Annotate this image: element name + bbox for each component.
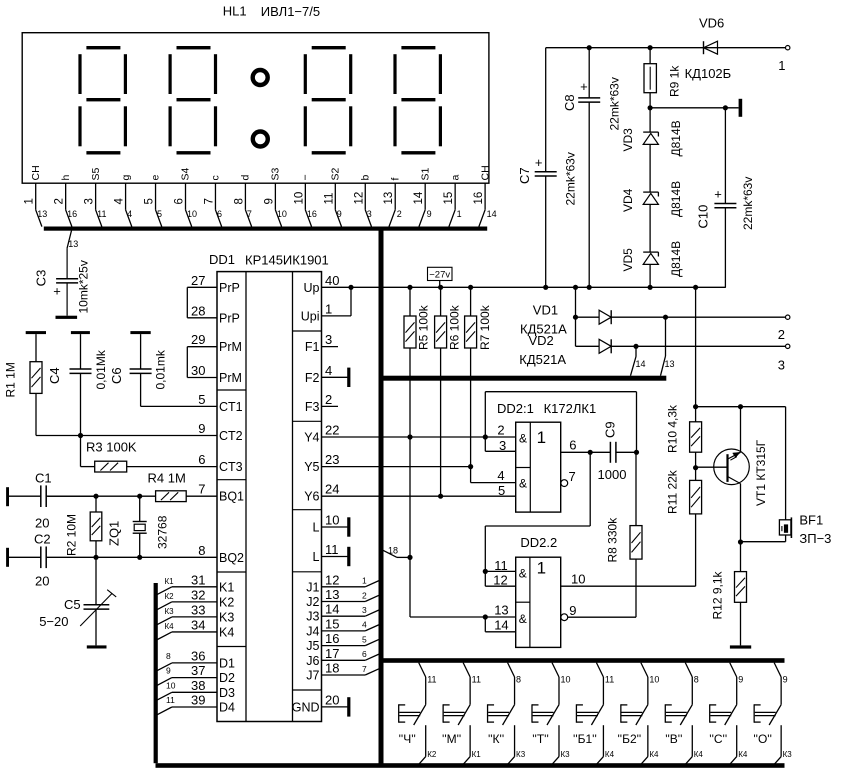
svg-text:18: 18 [325, 661, 339, 676]
svg-text:37: 37 [191, 663, 205, 678]
capacitor C7 22mk*63v [545, 48, 547, 172]
svg-text:К4: К4 [165, 622, 175, 631]
DD1 pin 32 K2 with keyboard tap K2 [172, 601, 217, 603]
display pin 15 lead [454, 183, 456, 210]
svg-text:30: 30 [191, 363, 205, 378]
svg-text:28: 28 [191, 303, 205, 318]
svg-text:R6 100k: R6 100k [448, 304, 462, 350]
svg-text:ЗП−3: ЗП−3 [799, 531, 831, 546]
svg-text:38: 38 [191, 678, 205, 693]
svg-text:g: g [120, 175, 132, 181]
svg-text:DD1: DD1 [209, 252, 235, 267]
display pin 3 lead [95, 183, 97, 210]
svg-text:K3: K3 [219, 610, 234, 624]
push button SB8 &#39;&#39;С&#39;&#39; [730, 663, 737, 677]
svg-text:''В'': ''В'' [665, 732, 682, 746]
svg-text:1: 1 [362, 576, 367, 586]
DD1 pin 30 PrM [187, 377, 217, 379]
svg-text:1000: 1000 [598, 467, 627, 482]
svg-text:''Б2'': ''Б2'' [617, 732, 641, 746]
svg-text:4: 4 [127, 209, 132, 219]
svg-text:ИВЛ1−7/5: ИВЛ1−7/5 [261, 4, 320, 19]
svg-text:16: 16 [473, 192, 485, 205]
bus: horizontal bus to terminals 14/13 [383, 376, 666, 381]
push button SB1 &#39;&#39;Ч&#39;&#39; [419, 663, 426, 677]
svg-text:2: 2 [397, 209, 402, 219]
DD1 tie pins 29-30 [186, 347, 188, 378]
svg-text:5−20: 5−20 [39, 614, 68, 629]
DD1 pin 17 J6 with tap 6 [322, 659, 366, 661]
svg-text:11: 11 [427, 675, 436, 685]
svg-text:40: 40 [325, 273, 339, 288]
svg-text:CH: CH [479, 165, 491, 180]
svg-text:R8 330k: R8 330k [606, 517, 620, 563]
display pin 4 lead [125, 183, 127, 210]
push button SB9 &#39;&#39;О&#39;&#39; [774, 663, 781, 677]
wire -27v to R10 [695, 287, 697, 406]
svg-text:3: 3 [325, 332, 332, 347]
display pin 14 lead [424, 183, 426, 210]
capacitor C2 20 [9, 556, 41, 558]
svg-text:9: 9 [166, 666, 171, 676]
capacitor C3 [66, 248, 68, 279]
DD2:1 pin 3 [484, 437, 486, 451]
terminal 3 [786, 344, 790, 348]
svg-text:14: 14 [494, 618, 508, 633]
svg-text:C3: C3 [34, 270, 49, 287]
svg-text:36: 36 [191, 648, 205, 663]
DD2:1 output pin 6 [588, 450, 593, 455]
terminal bar below C5 [87, 645, 107, 648]
resistor R11 22k [690, 480, 702, 514]
display pin 12 lead [364, 183, 366, 210]
svg-text:&: & [519, 612, 527, 626]
svg-text:6: 6 [198, 452, 205, 467]
zener diode VD3 Д814В [643, 131, 658, 133]
svg-text:J7: J7 [306, 669, 319, 683]
svg-text:11: 11 [97, 209, 106, 219]
svg-text:9: 9 [738, 675, 743, 685]
display pin 5 lead [155, 183, 157, 210]
svg-text:29: 29 [191, 332, 205, 347]
svg-text:24: 24 [325, 482, 339, 497]
svg-text:J4: J4 [306, 624, 319, 638]
svg-text:R2 10M: R2 10M [65, 514, 79, 556]
svg-text:39: 39 [191, 693, 205, 708]
svg-text:5: 5 [198, 392, 205, 407]
svg-text:VD1: VD1 [533, 303, 558, 318]
svg-text:22mk*63v: 22mk*63v [741, 177, 755, 230]
DD1 pin 16 J5 with tap 5 [322, 645, 366, 647]
svg-text:R11 22k: R11 22k [666, 469, 680, 514]
diode VD2 КД521А [576, 345, 600, 347]
svg-text:6: 6 [174, 198, 186, 204]
display digit 3 segments [312, 46, 346, 49]
svg-text:CT3: CT3 [219, 460, 243, 474]
display pin 16 lead [484, 183, 486, 210]
resistor R7 100k [470, 287, 472, 316]
svg-text:20: 20 [35, 574, 49, 589]
svg-text:23: 23 [325, 452, 339, 467]
bus: thick vertical dropper [379, 227, 384, 766]
svg-text:S4: S4 [180, 167, 192, 180]
resistor R5 100k [409, 287, 411, 316]
DD1 pin 29 PrM [187, 346, 217, 348]
wire top node to BF1 [696, 406, 786, 408]
svg-text:27: 27 [191, 273, 205, 288]
wire feedback loop DD2:1 [484, 392, 486, 437]
svg-text:C6: C6 [109, 367, 124, 384]
DD2.2 pin 12 [485, 585, 515, 587]
svg-text:DD2.2: DD2.2 [520, 535, 557, 550]
svg-text:20: 20 [35, 516, 49, 531]
svg-text:R3 100K: R3 100K [86, 440, 137, 455]
svg-text:14: 14 [413, 191, 425, 204]
push button SB4 &#39;&#39;Т&#39;&#39; [552, 663, 559, 677]
svg-text:Д814В: Д814В [669, 120, 683, 156]
wire -27v rail [351, 286, 726, 288]
svg-text:f: f [389, 178, 401, 181]
svg-text:C8: C8 [562, 94, 577, 111]
DD2:1 pin 4 [470, 467, 472, 483]
svg-text:КД102Б: КД102Б [685, 66, 732, 81]
DD1 pin 14 J3 with tap 3 [322, 615, 366, 617]
svg-text:20: 20 [325, 692, 339, 707]
DD2.2 inverted output pin 9 [561, 614, 568, 621]
svg-text:PrP: PrP [219, 311, 240, 325]
svg-text:9: 9 [263, 198, 275, 204]
svg-text:7: 7 [362, 664, 367, 674]
svg-text:9: 9 [427, 209, 432, 219]
bus: buttons top bus [383, 658, 785, 663]
display pin 8 lead [244, 183, 246, 210]
svg-text:10: 10 [571, 572, 585, 587]
svg-text:7: 7 [203, 198, 215, 204]
svg-text:F2: F2 [305, 371, 320, 385]
diode VD6 КД102Б [704, 41, 718, 54]
svg-text:PrM: PrM [219, 340, 242, 354]
svg-text:9: 9 [783, 675, 788, 685]
svg-text:К172ЛК1: К172ЛК1 [544, 401, 597, 416]
svg-text:1: 1 [24, 198, 36, 204]
svg-text:VD6: VD6 [699, 16, 724, 31]
svg-text:VD5: VD5 [621, 248, 635, 272]
bus: keyboard column thick line [154, 583, 158, 763]
svg-text:13: 13 [665, 359, 675, 369]
svg-text:S2: S2 [330, 167, 342, 180]
svg-text:4: 4 [325, 363, 332, 378]
svg-text:Y6: Y6 [304, 490, 319, 504]
svg-text:3: 3 [499, 438, 506, 453]
wire branch to VD1 VD2 [575, 287, 577, 346]
push button SB3 &#39;&#39;К&#39;&#39; [508, 663, 515, 677]
svg-text:C7: C7 [517, 167, 532, 184]
svg-text:+: + [53, 284, 61, 299]
svg-text:13: 13 [325, 587, 339, 602]
DD1 tie pins 27-28 [186, 287, 188, 318]
svg-text:''Т'': ''Т'' [532, 732, 549, 746]
svg-text:VD4: VD4 [621, 188, 635, 212]
svg-text:5: 5 [144, 198, 156, 204]
display pin 7 lead [214, 183, 216, 210]
svg-text:1: 1 [778, 58, 785, 73]
svg-text:4: 4 [497, 468, 504, 483]
svg-text:9: 9 [569, 603, 576, 618]
display digit 2 segments [177, 46, 211, 49]
svg-text:F1: F1 [305, 340, 320, 354]
DD1 pin 39 D4 with keyboard tap 11 [172, 706, 217, 708]
diode VD1 КД521А [576, 316, 600, 318]
svg-text:12: 12 [353, 192, 365, 205]
svg-text:8: 8 [198, 543, 205, 558]
svg-text:33: 33 [191, 602, 205, 617]
svg-text:D3: D3 [219, 686, 235, 700]
DD1 pin 38 D3 with keyboard tap 10 [172, 691, 217, 693]
display pin 1 lead [35, 183, 37, 210]
DD1 pin 33 K3 with keyboard tap K3 [172, 616, 217, 618]
svg-text:10: 10 [325, 513, 339, 528]
svg-text:''Ч'': ''Ч'' [399, 732, 416, 746]
svg-text:BF1: BF1 [799, 513, 823, 528]
svg-text:5: 5 [498, 483, 505, 498]
svg-text:К1: К1 [472, 750, 482, 759]
push button SB7 &#39;&#39;В&#39;&#39; [685, 663, 692, 677]
svg-text:J1: J1 [306, 580, 319, 594]
svg-text:К4: К4 [649, 750, 659, 759]
DD2.2 pin 11 [485, 570, 515, 572]
svg-text:18: 18 [388, 546, 398, 556]
svg-text:Up: Up [304, 281, 320, 295]
display pin 13 lead [394, 183, 396, 210]
svg-text:К3: К3 [783, 750, 793, 759]
wire VD1 to bus tap 13 [665, 317, 667, 356]
svg-text:CT1: CT1 [219, 400, 243, 414]
svg-text:GND: GND [292, 700, 320, 714]
crystal ZQ1 32768 [139, 496, 141, 521]
svg-text:R5 100k: R5 100k [417, 304, 431, 350]
svg-text:ZQ1: ZQ1 [107, 521, 122, 546]
label -27v in box [428, 267, 453, 280]
svg-text:b: b [359, 175, 371, 181]
DD1 pin 34 K4 with keyboard tap K4 [172, 631, 217, 633]
svg-text:0,01Mk: 0,01Mk [94, 349, 108, 389]
svg-text:R7 100k: R7 100k [478, 304, 492, 350]
display colon lower dot [253, 132, 268, 147]
svg-text:КД521А: КД521А [519, 352, 566, 367]
svg-text:4: 4 [114, 198, 126, 205]
wire top supply rail [546, 47, 786, 49]
svg-text:+: + [535, 155, 543, 170]
svg-text:DD2:1: DD2:1 [497, 401, 534, 416]
svg-text:17: 17 [325, 646, 339, 661]
logic gate DD2:1 body [516, 422, 561, 512]
display digit 4 segments [401, 46, 435, 49]
svg-text:''Б1'': ''Б1'' [573, 732, 597, 746]
svg-text:d: d [240, 175, 252, 181]
wire Y5 net [322, 466, 471, 468]
svg-text:2: 2 [778, 327, 785, 342]
svg-text:R12 9,1k: R12 9,1k [711, 570, 725, 619]
transistor VT1 КТ315Г [714, 449, 750, 485]
svg-text:C1: C1 [35, 471, 52, 486]
svg-text:8: 8 [233, 198, 245, 204]
svg-text:C10: C10 [696, 205, 711, 229]
DD1 pin 37 D2 with keyboard tap 9 [172, 677, 217, 679]
svg-text:C2: C2 [34, 532, 51, 547]
svg-text:Д814В: Д814В [669, 181, 683, 217]
svg-text:2: 2 [497, 423, 504, 438]
svg-text:10: 10 [277, 209, 287, 219]
push button SB5 &#39;&#39;Б1&#39;&#39; [596, 663, 603, 677]
ground bar terminal [648, 105, 653, 110]
svg-text:−27v: −27v [429, 270, 450, 281]
resistor R12 9.1k [740, 542, 742, 572]
svg-text:e: e [150, 175, 162, 181]
zener diode VD5 Д814В [643, 251, 658, 253]
capacitor C10 22mk*63v [724, 108, 726, 204]
resistor R2 10M [95, 496, 97, 512]
svg-text:22mk*63v: 22mk*63v [564, 152, 578, 205]
svg-text:10: 10 [187, 209, 197, 219]
svg-text:К4: К4 [694, 750, 704, 759]
svg-text:2: 2 [54, 198, 66, 204]
svg-text:CT2: CT2 [219, 429, 243, 443]
capacitor C6 0.01mk [140, 334, 142, 369]
svg-text:К2: К2 [427, 750, 437, 759]
svg-text:1: 1 [325, 301, 332, 316]
svg-text:14: 14 [325, 602, 339, 617]
DD1 pin 28 PrP [187, 317, 217, 319]
svg-text:&: & [519, 432, 527, 446]
display pin 6 lead [185, 183, 187, 210]
svg-text:Y5: Y5 [304, 460, 319, 474]
terminal bar at C2 [6, 548, 9, 567]
svg-text:J2: J2 [306, 595, 319, 609]
svg-text:S3: S3 [270, 167, 282, 180]
svg-text:10: 10 [166, 680, 176, 690]
terminal 2 [786, 315, 790, 319]
svg-text:L: L [313, 550, 320, 564]
svg-text:8: 8 [694, 675, 699, 685]
terminal bar above C6 [130, 331, 150, 334]
svg-text:13: 13 [494, 603, 508, 618]
svg-text:7: 7 [198, 482, 205, 497]
svg-text:BQ2: BQ2 [219, 551, 244, 565]
terminal bar at C1 [6, 487, 9, 506]
svg-text:2: 2 [362, 590, 367, 600]
resistor R4 1M [48, 495, 156, 497]
svg-text:32768: 32768 [156, 515, 170, 549]
svg-text:R9 1k: R9 1k [668, 65, 682, 97]
svg-text:C9: C9 [603, 421, 618, 438]
svg-text:11: 11 [325, 542, 339, 557]
svg-text:К3: К3 [560, 750, 570, 759]
svg-text:R1 1M: R1 1M [4, 362, 18, 397]
svg-text:3: 3 [367, 209, 372, 219]
display colon upper dot [253, 70, 268, 85]
display pin 10 lead [304, 183, 306, 210]
svg-text:F3: F3 [305, 400, 320, 414]
svg-text:11: 11 [494, 558, 508, 573]
svg-text:16: 16 [307, 209, 317, 219]
resistor R3 100K [80, 436, 82, 467]
svg-text:BQ1: BQ1 [219, 490, 244, 504]
svg-text:К3: К3 [516, 750, 526, 759]
wire Y4 net [322, 436, 486, 438]
svg-text:16: 16 [325, 631, 339, 646]
svg-text:7: 7 [569, 469, 576, 484]
svg-text:10: 10 [649, 675, 659, 685]
svg-text:+: + [580, 79, 588, 94]
bus: bottom bus [156, 763, 785, 768]
svg-text:6: 6 [217, 209, 222, 219]
svg-text:6: 6 [362, 649, 367, 659]
svg-text:13: 13 [383, 192, 395, 205]
capacitor C4 0.01mk [80, 334, 82, 369]
svg-text:13: 13 [68, 239, 78, 249]
svg-text:31: 31 [191, 572, 205, 587]
wire VD2 to bus tap 14 [635, 346, 637, 356]
DD1 pin 15 J4 with tap 4 [322, 630, 366, 632]
zener diode VD4 Д814В [643, 191, 658, 193]
display pin 2 lead [65, 183, 67, 210]
terminal bar above R1 [26, 331, 46, 334]
svg-text:4: 4 [362, 620, 367, 630]
svg-text:К3: К3 [165, 607, 175, 616]
IC DD1 КР145ИК1901 body [217, 272, 322, 722]
DD2:1 inverted output pin 7 [561, 480, 568, 487]
svg-text:КР145ИК1901: КР145ИК1901 [245, 253, 329, 268]
svg-text:Upi: Upi [301, 309, 320, 323]
svg-text:2: 2 [325, 392, 332, 407]
svg-text:15: 15 [325, 616, 339, 631]
svg-text:0,01mk: 0,01mk [154, 349, 168, 389]
svg-text:1: 1 [537, 559, 546, 578]
svg-text:8: 8 [166, 651, 171, 661]
svg-text:PrP: PrP [219, 281, 240, 295]
svg-text:h: h [60, 175, 72, 181]
buzzer BF1 ЗП-3 [785, 407, 787, 520]
resistor R8 330k [635, 452, 637, 525]
DD1 tie pins 40-1 [350, 287, 352, 316]
svg-text:16: 16 [67, 209, 77, 219]
svg-text:11: 11 [323, 193, 335, 205]
svg-text:K4: K4 [219, 625, 234, 639]
svg-text:11: 11 [605, 675, 614, 685]
DD1 pin 13 J2 with tap 2 [322, 601, 366, 603]
display pin 9 lead [274, 183, 276, 210]
svg-text:11: 11 [166, 695, 175, 705]
wire CT2 net [36, 435, 217, 437]
svg-text:C4: C4 [47, 367, 62, 384]
svg-text:7: 7 [247, 209, 252, 219]
svg-text:VT1 КТ315Г: VT1 КТ315Г [754, 439, 768, 506]
svg-text:8: 8 [516, 675, 521, 685]
svg-text:C5: C5 [64, 597, 81, 612]
svg-text:&: & [519, 477, 527, 491]
svg-text:+: + [714, 187, 722, 202]
svg-text:S1: S1 [419, 167, 431, 180]
svg-text:VD2: VD2 [529, 333, 554, 348]
vacuum fluorescent display HL1 ИВЛ1-7/5 [22, 33, 489, 184]
svg-text:3: 3 [362, 605, 367, 615]
DD1 pin 27 PrP [187, 286, 217, 288]
svg-text:5: 5 [362, 634, 367, 644]
wire net 18 to DD2.2 pins 13-14 [409, 557, 411, 617]
DD1 pin 31 K1 with keyboard tap K1 [172, 586, 217, 588]
svg-text:D2: D2 [219, 671, 235, 685]
svg-text:Y4: Y4 [304, 431, 319, 445]
